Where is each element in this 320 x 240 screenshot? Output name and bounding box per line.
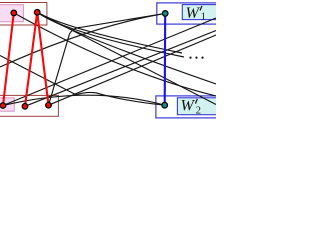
svg-text:W: W (181, 98, 196, 115)
svg-text:1: 1 (201, 11, 206, 22)
svg-text:W: W (186, 5, 201, 22)
svg-text:2: 2 (196, 106, 201, 117)
